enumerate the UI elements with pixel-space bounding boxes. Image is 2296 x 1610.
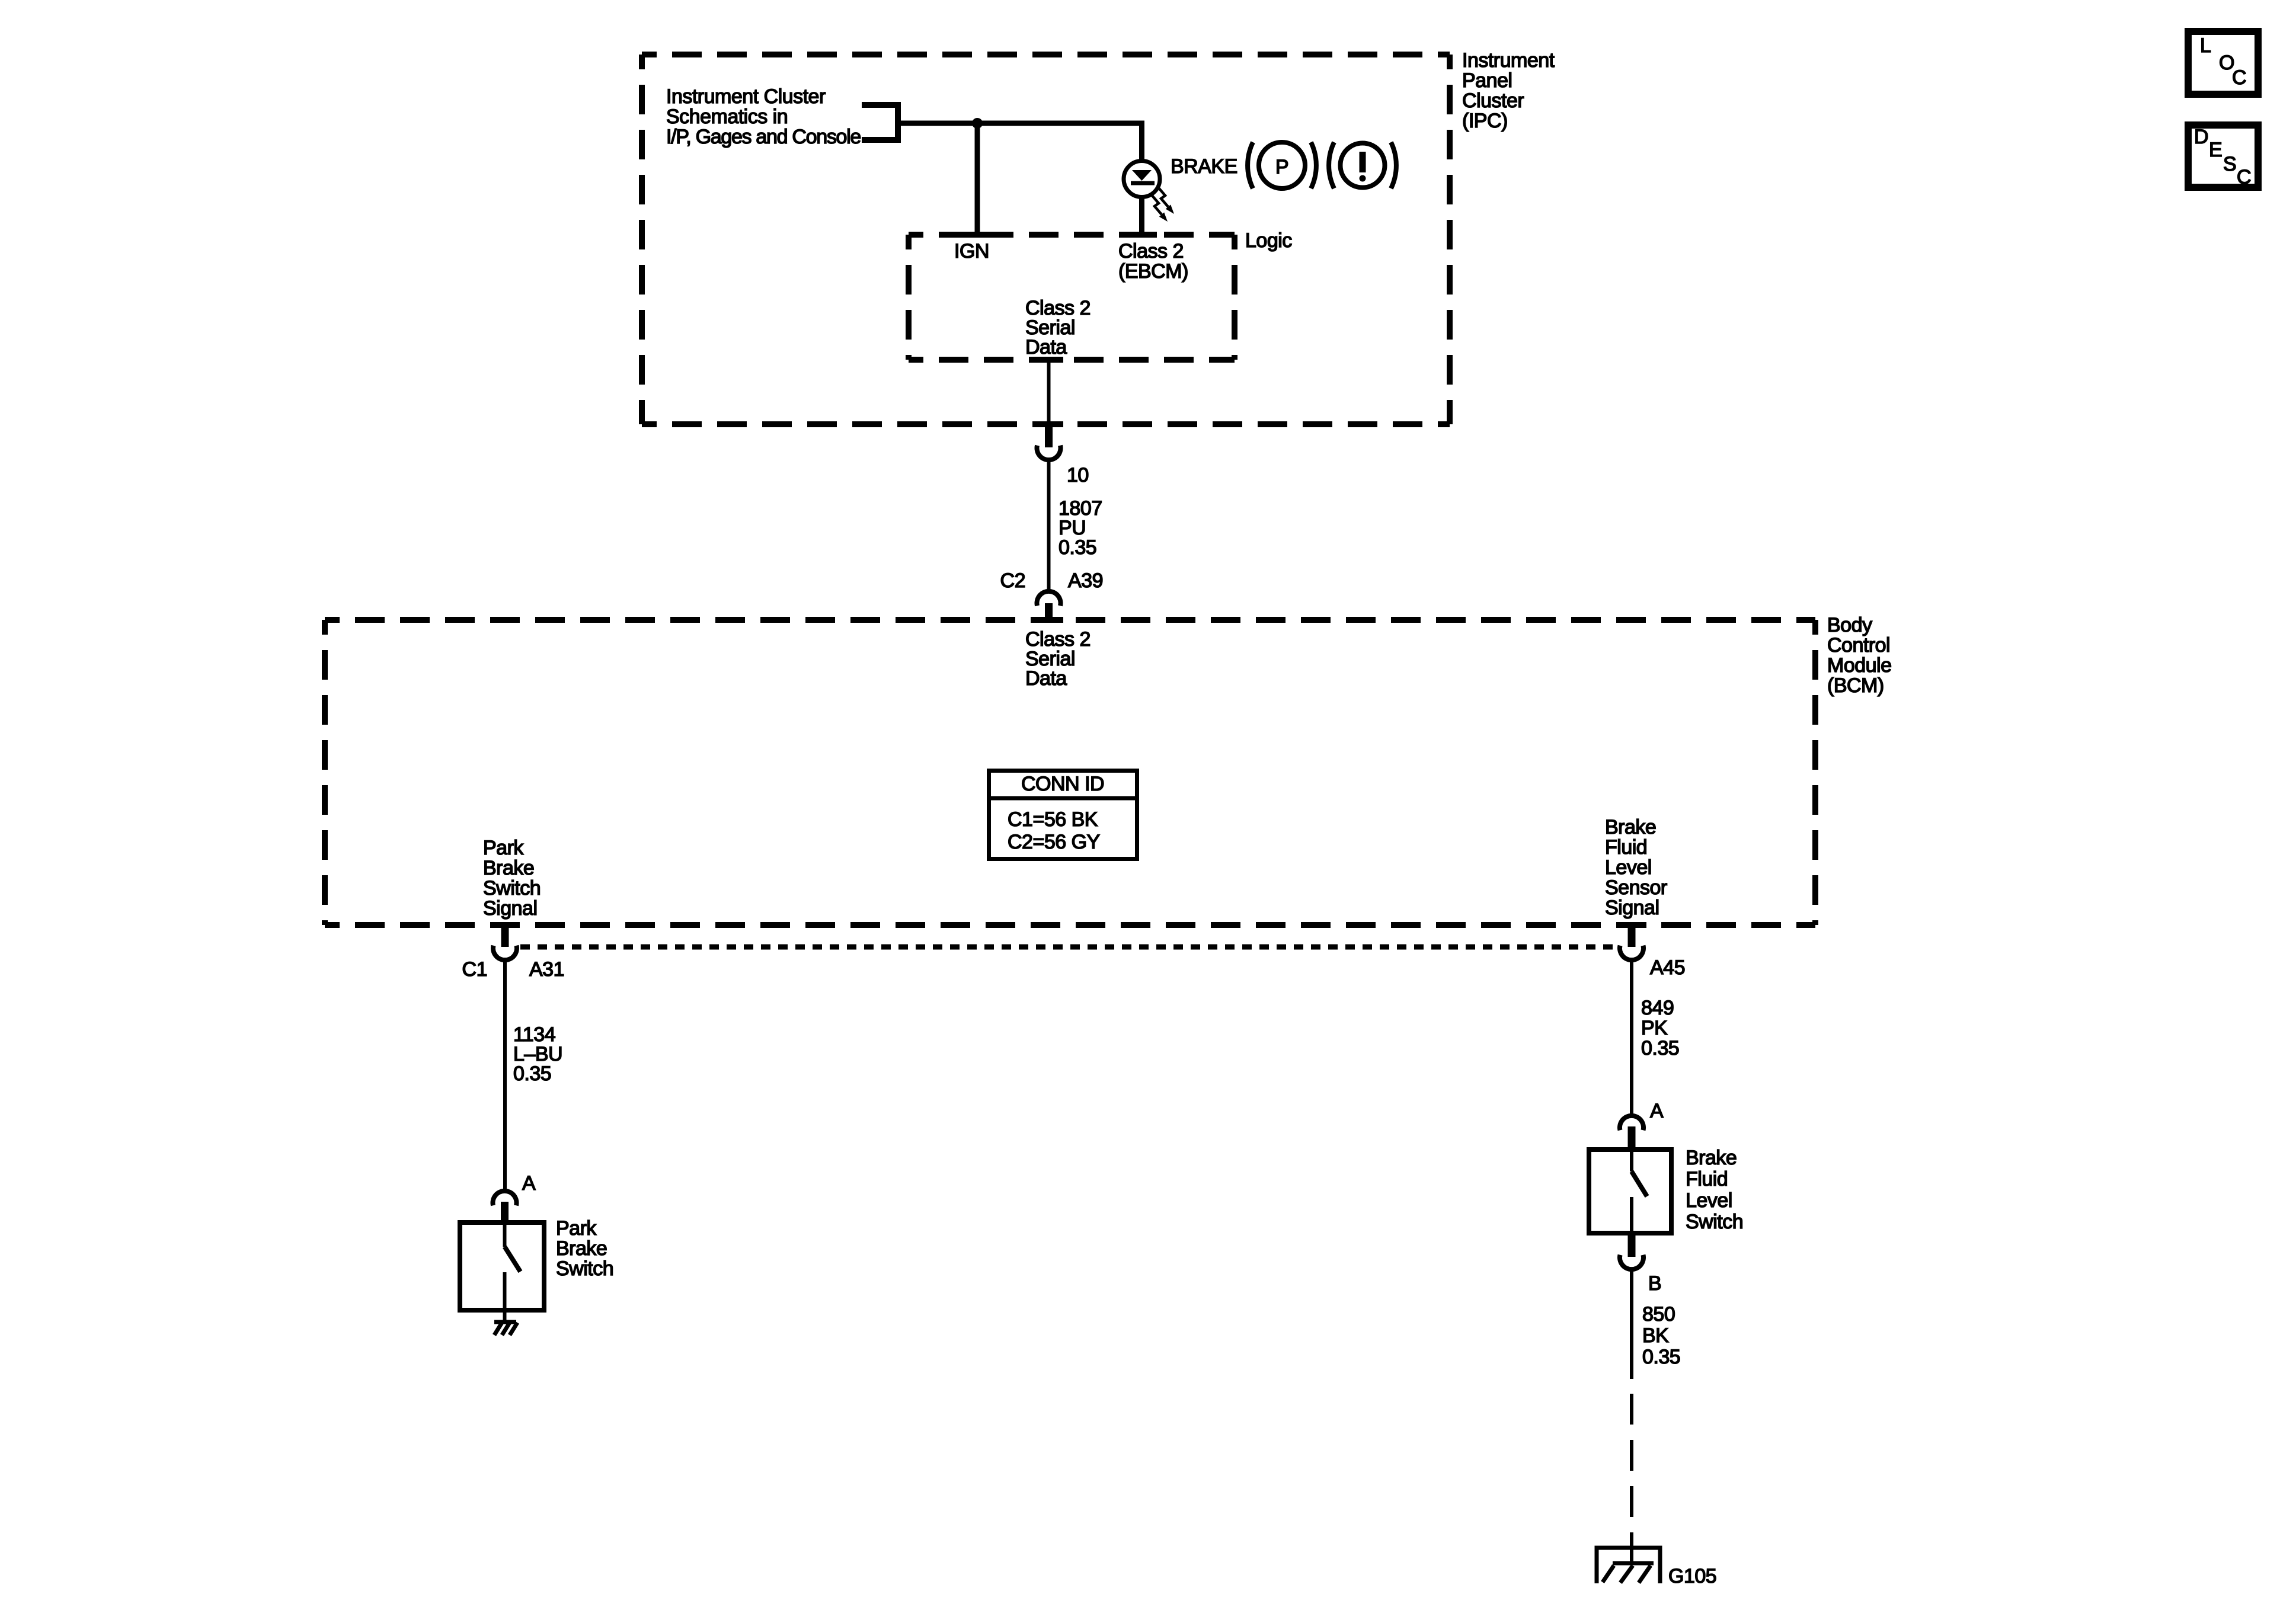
connector A45: [1620, 922, 1643, 960]
BCM label: [1827, 614, 1892, 697]
ground G105: [1597, 1548, 1660, 1583]
svg-text:Body: Body: [1827, 614, 1872, 636]
wire 1134 L-BU 0.35: [503, 960, 507, 1189]
park brake indicator icon ((P)): [1248, 142, 1316, 188]
LED brake indicator: [1124, 161, 1160, 197]
connector C2 / pin A39: [1037, 591, 1061, 623]
svg-text:850: 850: [1642, 1303, 1675, 1326]
Park Brake Switch label: [556, 1217, 613, 1280]
T dash at IPC bottom border: [1034, 421, 1063, 427]
svg-text:Switch: Switch: [556, 1257, 613, 1280]
Instrument Panel Cluster (IPC) dashed box: [642, 55, 1450, 424]
svg-text:C: C: [2237, 166, 2251, 188]
svg-text:A39: A39: [1068, 569, 1103, 592]
svg-text:Brake: Brake: [556, 1237, 607, 1260]
svg-text:B: B: [1648, 1272, 1661, 1295]
Class 2 Serial Data label (BCM): [1025, 628, 1091, 690]
connector B: [1620, 1235, 1643, 1269]
Class 2 (EBCM) pin label: [1118, 240, 1188, 283]
svg-text:IGN: IGN: [954, 240, 989, 263]
svg-text:0.35: 0.35: [1059, 536, 1096, 559]
svg-text:Control: Control: [1827, 634, 1890, 657]
dashed wire to ground: [1630, 1394, 1633, 1563]
svg-text:A45: A45: [1650, 956, 1685, 979]
svg-text:C: C: [2232, 66, 2246, 89]
svg-text:C1=56 BK: C1=56 BK: [1008, 808, 1098, 831]
svg-text:Module: Module: [1827, 654, 1892, 677]
reference bracket: [862, 102, 898, 143]
border T dashes at wire crossings: [490, 620, 1646, 925]
junction node: [972, 118, 983, 129]
svg-text:C2=56 GY: C2=56 GY: [1008, 831, 1100, 853]
svg-text:Data: Data: [1025, 336, 1067, 359]
svg-text:Switch: Switch: [1686, 1211, 1743, 1233]
wire LED anode: [1139, 121, 1144, 162]
Instrument Cluster Schematics reference text: [666, 85, 861, 148]
connector pin 10: [1037, 421, 1061, 460]
border T dashes at wire crossings: [962, 235, 1157, 360]
svg-text:PK: PK: [1641, 1017, 1668, 1039]
svg-text:(EBCM): (EBCM): [1118, 260, 1188, 283]
svg-text:Signal: Signal: [483, 897, 538, 920]
svg-text:Schematics in: Schematics in: [666, 105, 788, 128]
park brake switch box: [460, 1222, 544, 1310]
svg-text:Cluster: Cluster: [1462, 89, 1524, 112]
svg-text:C1: C1: [462, 958, 487, 981]
svg-text:Class 2: Class 2: [1118, 240, 1184, 263]
svg-text:0.35: 0.35: [1641, 1037, 1679, 1060]
connector A (park brake switch): [493, 1191, 516, 1222]
Body Control Module (BCM) dashed box: [325, 620, 1815, 925]
svg-text:Instrument Cluster: Instrument Cluster: [666, 85, 826, 108]
brake fluid level switch box: [1589, 1150, 1671, 1233]
brake fluid level switch contacts: [1632, 1150, 1647, 1233]
connector face dotted line: [520, 945, 1617, 950]
wire LED cathode: [1139, 196, 1144, 238]
svg-text:Brake: Brake: [1686, 1147, 1737, 1169]
svg-text:Sensor: Sensor: [1605, 876, 1667, 899]
svg-text:Park: Park: [483, 837, 524, 859]
svg-text:Switch: Switch: [483, 877, 541, 900]
wire serial data to pin 10: [1047, 360, 1051, 421]
svg-text:Brake: Brake: [1605, 816, 1656, 838]
Park Brake Switch Signal pin label: [483, 837, 541, 920]
svg-text:Level: Level: [1686, 1189, 1732, 1212]
svg-text:0.35: 0.35: [513, 1062, 551, 1085]
connector A (brake fluid level switch): [1620, 1116, 1643, 1147]
svg-text:L: L: [2200, 34, 2211, 57]
Brake Fluid Level Sensor Signal pin label: [1605, 816, 1667, 919]
svg-text:0.35: 0.35: [1642, 1346, 1680, 1368]
svg-text:Brake: Brake: [483, 857, 534, 879]
svg-text:A31: A31: [529, 958, 564, 981]
svg-text:D: D: [2194, 126, 2208, 148]
svg-text:10: 10: [1067, 464, 1089, 486]
IPC label: [1462, 49, 1555, 132]
svg-text:A: A: [522, 1172, 536, 1195]
svg-text:A: A: [1650, 1100, 1664, 1122]
svg-text:(BCM): (BCM): [1827, 674, 1884, 697]
wire bracket to LED: [898, 121, 1144, 126]
svg-text:Panel: Panel: [1462, 69, 1512, 92]
svg-text:CONN ID: CONN ID: [1021, 773, 1104, 795]
svg-text:P: P: [1275, 156, 1288, 178]
svg-text:G105: G105: [1668, 1565, 1716, 1587]
svg-text:BK: BK: [1642, 1324, 1669, 1347]
wire IGN drop: [975, 123, 980, 238]
svg-text:Instrument: Instrument: [1462, 49, 1555, 72]
svg-text:Park: Park: [556, 1217, 597, 1240]
wire 850 BK 0.35: [1630, 1269, 1633, 1379]
svg-text:Level: Level: [1605, 856, 1652, 879]
chassis ground (park brake switch): [494, 1322, 517, 1335]
LOC reference box: [2188, 31, 2258, 94]
svg-text:C2: C2: [1000, 569, 1025, 592]
svg-text:Signal: Signal: [1605, 897, 1659, 919]
DESC reference box: [2188, 125, 2258, 187]
svg-text:Fluid: Fluid: [1605, 836, 1647, 859]
park brake switch contacts: [505, 1222, 521, 1321]
svg-text:BRAKE: BRAKE: [1171, 155, 1237, 178]
svg-text:Fluid: Fluid: [1686, 1168, 1728, 1190]
svg-text:S: S: [2223, 153, 2236, 175]
svg-text:I/P, Gages and Console: I/P, Gages and Console: [666, 126, 861, 148]
LED light arrows: [1152, 187, 1168, 215]
Class 2 Serial Data label (logic box): [1025, 297, 1091, 359]
svg-text:Data: Data: [1025, 667, 1067, 690]
svg-text:Logic: Logic: [1245, 229, 1292, 252]
svg-text:E: E: [2209, 139, 2222, 161]
Brake Fluid Level Switch label: [1686, 1147, 1743, 1233]
svg-text:(IPC): (IPC): [1462, 110, 1508, 132]
connector C1 / pin A31: [493, 922, 517, 960]
Logic inner dashed box: [909, 235, 1235, 360]
svg-text:849: 849: [1641, 997, 1674, 1019]
CONN ID table: [987, 771, 1139, 859]
wire 849 PK 0.35: [1630, 960, 1633, 1113]
wire 1807 PU 0.35: [1047, 460, 1051, 591]
brake warning indicator icon ((!)): [1329, 142, 1396, 188]
